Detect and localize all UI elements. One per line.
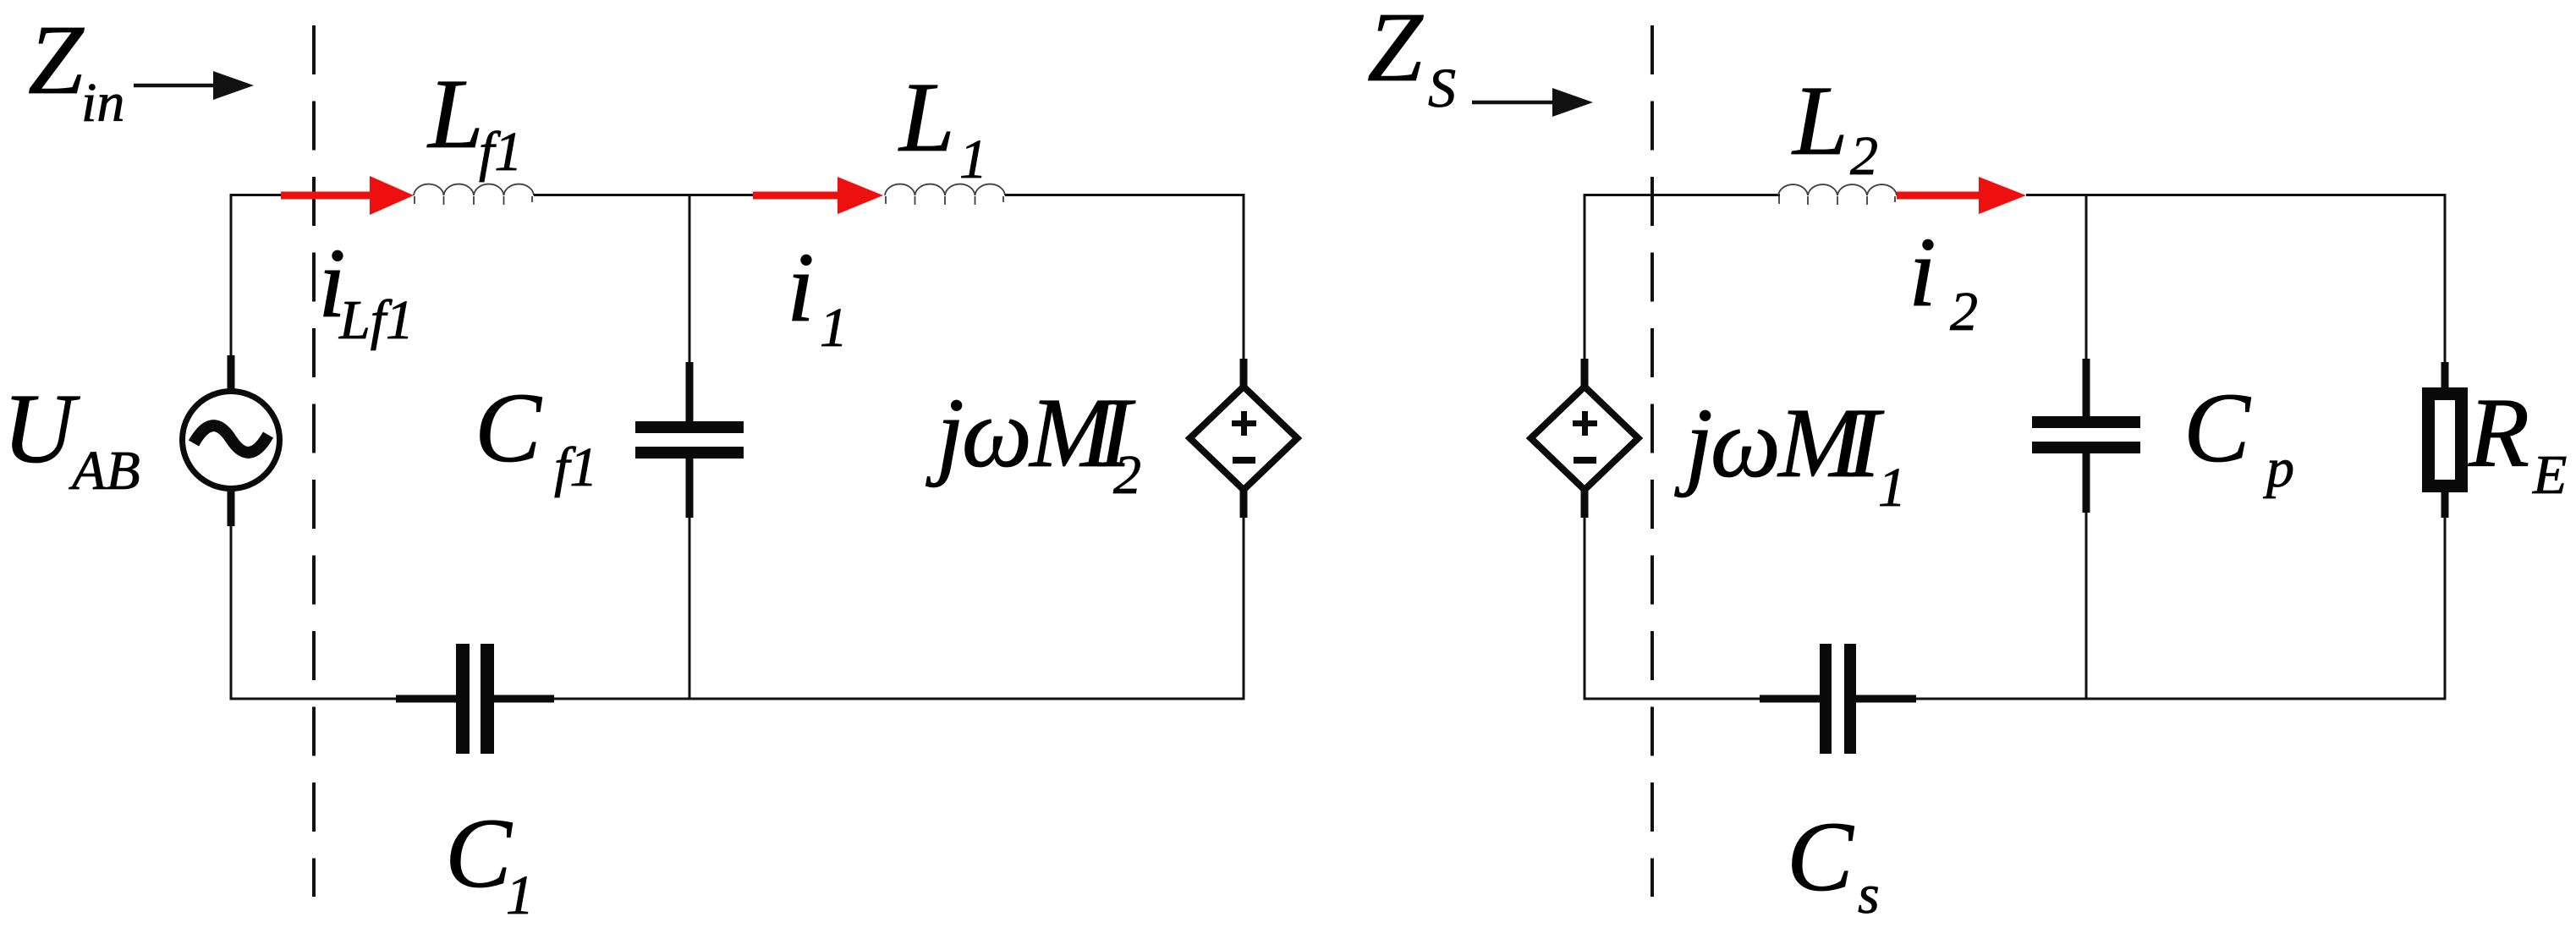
voltage source U_AB [183, 355, 280, 526]
wire top-right (L_1 to corner) [1005, 194, 1245, 196]
svg-text:L: L [1791, 65, 1848, 176]
wire right vertical (upper) [1243, 194, 1245, 362]
capacitor C_p [2032, 359, 2140, 513]
svg-text:s: s [1858, 864, 1880, 925]
dependent source jwMI1 [1531, 359, 1639, 518]
wire secondary right vertical (lower) [2444, 516, 2447, 700]
label L_2 [1791, 65, 1878, 187]
wire top-left (source to L_f1) [230, 194, 283, 196]
svg-text:S: S [1428, 58, 1456, 119]
svg-text:i: i [787, 232, 815, 343]
svg-text:2: 2 [1113, 444, 1141, 506]
svg-text:in: in [81, 72, 124, 134]
capacitor C_f1 [635, 362, 744, 518]
label L_1 [898, 62, 987, 190]
label C_1 [445, 798, 534, 926]
wire C_p branch (upper) [2085, 195, 2088, 362]
svg-text:f1: f1 [554, 437, 597, 498]
wire left vertical (lower) [230, 523, 233, 700]
label Z_S [1367, 0, 1456, 119]
svg-text:C: C [445, 798, 513, 909]
label i_1 [787, 232, 848, 359]
wire secondary right vertical (upper) [2444, 194, 2447, 365]
wire left vertical (upper) [230, 194, 233, 360]
svg-text:jωMI: jωMI [1674, 387, 1884, 498]
boundary dashed line (secondary port) [1651, 25, 1654, 897]
current arrow i_1 [753, 177, 883, 214]
label i_2 [1909, 217, 1978, 343]
svg-text:L: L [426, 58, 484, 169]
wire bottom-middle (C_1 to C_f1 junction to corner) [553, 698, 1245, 700]
wire top-middle (L_f1 to L_1, junction with C_f1) [534, 194, 755, 196]
svg-text:1: 1 [506, 865, 534, 926]
label C_p [2183, 372, 2294, 499]
svg-text:1: 1 [959, 129, 987, 190]
wire bottom-left of secondary (to C_s) [1585, 698, 1761, 700]
svg-text:1: 1 [820, 297, 848, 359]
svg-text:U: U [3, 373, 80, 484]
current arrow i_2 [1897, 177, 2026, 214]
svg-text:C: C [475, 372, 542, 483]
inductor L_f1 [414, 184, 534, 205]
label i_Lf1 [318, 228, 414, 351]
label jwMI2 [925, 377, 1141, 506]
svg-text:p: p [2263, 437, 2294, 499]
svg-text:C: C [1787, 801, 1854, 912]
svg-text:E: E [2532, 444, 2567, 506]
label C_f1 [475, 372, 597, 498]
boundary dashed line (input port) [312, 25, 316, 897]
arrow Z_in [134, 71, 254, 100]
label U_AB [3, 373, 140, 502]
svg-text:i: i [1909, 217, 1936, 327]
svg-text:2: 2 [1850, 125, 1878, 187]
wire top-left of secondary (to L_2) [1584, 194, 1781, 196]
resistor R_E [2429, 362, 2462, 518]
wire top-right of secondary (junction with C_p, to corner) [2026, 194, 2447, 196]
inductor L_1 [885, 184, 1005, 205]
label R_E [2468, 377, 2567, 506]
wire bottom-right of secondary (C_s to corner, junction with C_p) [1916, 698, 2447, 700]
svg-text:Z: Z [28, 4, 85, 115]
wire C_f1 branch (lower) [689, 518, 691, 699]
svg-text:C: C [2183, 372, 2251, 483]
wire right vertical (lower) [1243, 516, 1245, 700]
wire C_f1 branch (upper) [689, 195, 691, 364]
wire bottom-left (to C_1) [231, 698, 398, 700]
svg-text:R: R [2468, 377, 2529, 488]
inductor L_2 [1778, 184, 1897, 205]
label jwMI1 [1674, 387, 1906, 519]
wire C_p branch (lower) [2085, 513, 2088, 699]
label Z_in [28, 4, 124, 134]
svg-text:jωMI: jωMI [925, 377, 1135, 488]
wire secondary left vertical (lower) [1584, 516, 1586, 700]
svg-text:2: 2 [1950, 281, 1978, 343]
dependent source jwMI2 [1190, 359, 1298, 518]
svg-text:Z: Z [1367, 0, 1424, 102]
label L_f1 [426, 58, 522, 183]
current arrow i_Lf1 [281, 176, 414, 215]
svg-text:AB: AB [69, 440, 140, 502]
svg-text:Lf1: Lf1 [338, 289, 414, 351]
wire secondary left vertical (upper) [1584, 194, 1586, 362]
capacitor C_1 [396, 644, 554, 754]
capacitor C_s [1760, 644, 1916, 754]
svg-text:1: 1 [1878, 457, 1906, 519]
label C_s [1787, 801, 1880, 925]
svg-text:L: L [898, 62, 955, 173]
arrow Z_S [1472, 88, 1593, 117]
svg-text:f1: f1 [479, 121, 522, 183]
